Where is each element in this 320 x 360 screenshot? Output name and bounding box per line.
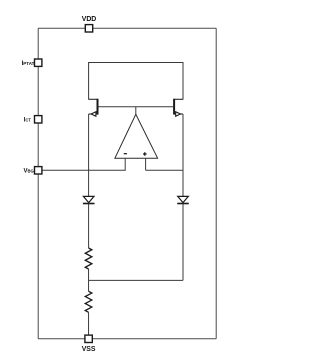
wire right bus <box>215 28 217 339</box>
wire VBG net to inverting input <box>42 169 126 171</box>
wire source box joining M1 and M2 sources <box>89 63 183 100</box>
pmos M2 (right) <box>174 99 183 117</box>
wire M2 drain down to D2 <box>182 114 184 197</box>
wire non-inverting input drop <box>145 158 147 170</box>
wire M1 drain down to D1 <box>88 114 90 197</box>
label IPTAT <box>22 60 35 67</box>
terminal IPTAT <box>35 59 42 66</box>
terminal ICT <box>35 116 42 123</box>
label ICT <box>24 118 32 124</box>
wire R2 to VSS terminal <box>88 312 90 339</box>
diode D1 <box>83 196 95 203</box>
diode D2 <box>177 196 189 203</box>
wire D2 cathode down to tap <box>182 204 184 281</box>
op-amp U1 <box>115 114 158 158</box>
wire op-amp output stub <box>135 107 137 115</box>
wire non-inverting input to right branch <box>146 169 183 171</box>
label VDD <box>82 16 97 23</box>
wire VSS bottom rail <box>38 338 216 340</box>
terminal VSS <box>85 335 92 342</box>
wire inverting input drop <box>124 158 126 170</box>
resistor R1 <box>85 248 92 269</box>
svg-text:IPTAT: IPTAT <box>22 60 35 67</box>
resistor R2 <box>85 291 92 312</box>
wire VDD top rail <box>38 27 216 29</box>
wire R1 to R2 through tap node <box>88 269 90 291</box>
wire gate line between M1 and M2 <box>99 106 174 108</box>
pmos M1 (left) <box>89 99 98 117</box>
wire tap node horizontal to R1/R2 junction <box>89 279 183 281</box>
wire left bus (IPTAT/ICT/VBG column) <box>37 28 39 339</box>
terminal VBG <box>35 167 42 174</box>
svg-text:VDD: VDD <box>82 16 97 23</box>
terminal VDD <box>85 25 92 32</box>
wire D1 cathode to R1 <box>88 204 90 249</box>
label VSS <box>82 346 96 353</box>
svg-text:VSS: VSS <box>82 346 96 353</box>
label VBG <box>24 168 34 174</box>
